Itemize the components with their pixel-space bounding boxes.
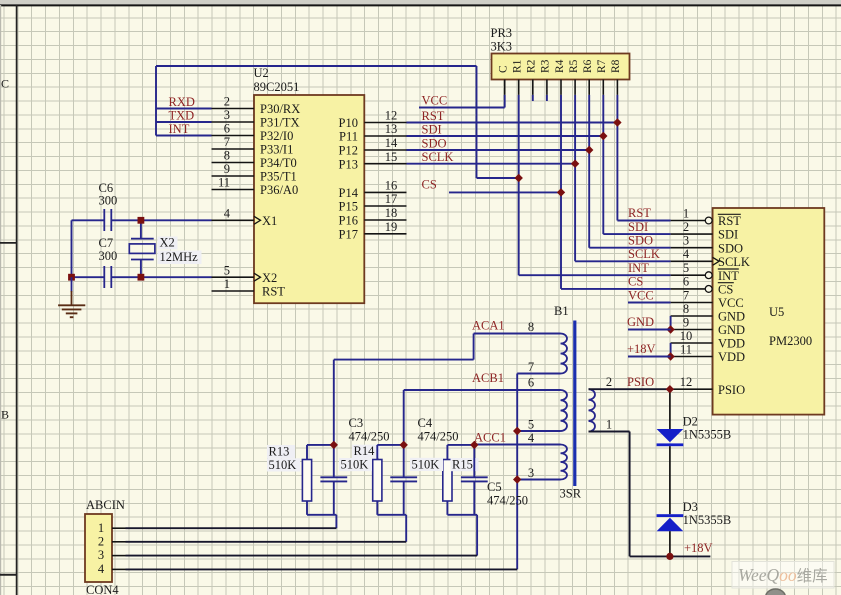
U2 pin 15 stub	[364, 163, 406, 165]
svg-text:RST: RST	[422, 109, 445, 123]
wire PR3 C to VCC row	[504, 95, 506, 108]
svg-text:3SR: 3SR	[560, 487, 582, 501]
svg-text:3: 3	[98, 548, 104, 562]
wire RST into U5	[617, 220, 670, 222]
wire INT loop top horizontal	[156, 65, 477, 67]
ground symbol bars	[58, 304, 85, 306]
U5 pin 10 stub	[671, 342, 713, 344]
svg-text:C7: C7	[99, 236, 114, 250]
svg-text:VCC: VCC	[628, 289, 654, 303]
resistor R15 body	[443, 460, 452, 502]
crystal X2 label	[158, 237, 178, 250]
svg-text:474/250: 474/250	[349, 430, 390, 444]
wire CS into U5	[561, 288, 671, 290]
zone divider tick lower	[0, 574, 17, 576]
wire C3 drop to bus	[335, 515, 337, 528]
svg-text:RXD: RXD	[169, 95, 195, 109]
svg-text:VCC: VCC	[422, 94, 448, 108]
svg-text:P35/T1: P35/T1	[260, 170, 297, 184]
PR3 pin C stub	[504, 80, 506, 95]
junction CS-R4	[557, 188, 565, 196]
wire ABCIN 3	[126, 555, 478, 557]
crystal X2 value 12MHz	[158, 251, 202, 265]
svg-text:SDO: SDO	[628, 233, 653, 247]
connector CON4 body	[85, 514, 112, 582]
U5 pin 11 stub	[671, 356, 713, 358]
svg-text:P30/RX: P30/RX	[260, 102, 300, 116]
top toolbar strip	[0, 0, 841, 4]
svg-text:C: C	[1, 77, 9, 91]
CON4 pin 1 stub	[112, 527, 126, 529]
wire INT row	[156, 135, 212, 137]
IC U5 PM2300 body	[713, 208, 825, 415]
svg-text:9: 9	[224, 162, 230, 176]
svg-text:510K: 510K	[269, 458, 297, 472]
svg-text:CON4: CON4	[86, 583, 119, 595]
wire CS row from U2	[449, 191, 561, 193]
svg-text:PSIO: PSIO	[718, 383, 745, 397]
wire U5 pin10 jog down	[670, 343, 672, 357]
svg-text:1: 1	[606, 418, 612, 432]
svg-text:R2: R2	[526, 59, 538, 73]
svg-text:P12: P12	[339, 144, 358, 158]
capacitor C7 plates	[103, 266, 105, 288]
wire INT loop right vertical	[476, 66, 478, 178]
svg-text:2: 2	[683, 220, 689, 234]
U5 pin label overline INT	[718, 268, 739, 270]
U5 SCLK clock chevron	[713, 257, 720, 265]
svg-text:300: 300	[99, 194, 118, 208]
svg-text:D3: D3	[683, 500, 698, 514]
svg-text:2: 2	[606, 375, 612, 389]
svg-text:8: 8	[528, 320, 534, 334]
U2 pin 19 stub	[364, 233, 406, 235]
wire R14-C4 bottom	[377, 514, 406, 516]
capacitor C4 top stem	[403, 445, 405, 477]
wire PR3 R6 vertical (SDO net)	[588, 95, 590, 248]
B1 pin 4 wire (ACC1)	[474, 444, 560, 446]
svg-text:P34/T0: P34/T0	[260, 156, 297, 170]
svg-text:INT: INT	[169, 122, 190, 136]
svg-text:SDI: SDI	[628, 220, 648, 234]
junction SDO-R6	[585, 146, 593, 154]
U5 pin 12 stub	[671, 388, 713, 390]
wire VCC row	[419, 107, 505, 109]
svg-text:INT: INT	[718, 269, 739, 283]
svg-text:PSIO: PSIO	[627, 375, 654, 389]
PR3 pin R7 stub	[602, 80, 604, 95]
svg-text:7: 7	[683, 288, 689, 302]
svg-text:R6: R6	[582, 59, 594, 73]
ground symbol stem	[71, 277, 73, 292]
svg-text:474/250: 474/250	[487, 494, 528, 508]
junction D3-+18V	[666, 553, 673, 560]
svg-text:+18V: +18V	[627, 342, 656, 356]
wire INT to R1 junction	[477, 177, 519, 179]
U5 pin 3 stub	[671, 247, 713, 249]
svg-text:PR3: PR3	[491, 26, 513, 40]
wire ABCIN 4	[126, 568, 518, 570]
svg-text:18: 18	[385, 206, 398, 220]
svg-text:10: 10	[680, 329, 693, 343]
svg-text:R7: R7	[596, 59, 608, 73]
svg-text:7: 7	[528, 360, 534, 374]
svg-text:C5: C5	[487, 480, 502, 494]
sheet inner border line	[16, 5, 18, 595]
svg-text:SCLK: SCLK	[422, 150, 454, 164]
svg-text:INT: INT	[628, 261, 649, 275]
U2 pin 17 stub	[364, 205, 406, 207]
watermark panel	[732, 562, 834, 589]
wire SDI row from U2	[407, 135, 604, 137]
svg-text:R8: R8	[610, 59, 622, 73]
svg-text:RST: RST	[262, 285, 285, 299]
PR3 pin R5 stub	[574, 80, 576, 95]
PR3 pin R6 stub	[588, 80, 590, 95]
svg-text:4: 4	[224, 207, 231, 221]
B1 pin 6 wire (ACB1)	[404, 389, 561, 391]
junction ground node	[68, 274, 75, 281]
wire R14-C4 top	[377, 444, 403, 446]
B1 pin 5 wire	[517, 430, 560, 432]
wire ABCIN 1	[126, 527, 337, 529]
U5 pin 6 stub	[671, 288, 706, 290]
wire PR3 R1 vertical (INT net)	[518, 95, 520, 275]
zone divider tick upper	[0, 242, 17, 244]
wire ACB1 down to C4	[403, 390, 405, 445]
svg-text:3: 3	[528, 466, 534, 480]
svg-text:P33/I1: P33/I1	[260, 143, 293, 157]
svg-text:3K3: 3K3	[491, 40, 513, 54]
svg-text:8: 8	[683, 302, 689, 316]
svg-text:U5: U5	[769, 305, 784, 319]
svg-text:P32/I0: P32/I0	[260, 129, 293, 143]
crystal X2 stem top	[140, 220, 142, 238]
svg-text:C4: C4	[418, 416, 433, 430]
svg-text:6: 6	[683, 275, 689, 289]
svg-text:GND: GND	[718, 310, 745, 324]
svg-text:X2: X2	[262, 271, 277, 285]
svg-text:R4: R4	[554, 59, 566, 73]
svg-text:14: 14	[385, 136, 398, 150]
svg-text:7: 7	[224, 135, 230, 149]
U2 pin 13 stub	[364, 135, 406, 137]
wire SDI into U5	[603, 233, 670, 235]
wire ACA1 corner vertical	[473, 334, 475, 360]
svg-text:R14: R14	[354, 444, 376, 458]
U2 X1 clock chevron	[254, 216, 261, 224]
wire GND stub	[628, 329, 671, 331]
junction RST-R8	[613, 118, 621, 126]
U2 pin 8 stub	[212, 162, 255, 164]
wire PR3 R4 vertical (CS net)	[560, 95, 562, 289]
svg-text:11: 11	[680, 342, 692, 356]
resistor R15 top stem	[446, 445, 448, 460]
PR3 pin R1 stub	[518, 80, 520, 95]
junction SCLK-R5	[571, 160, 579, 168]
wire SDO row from U2	[407, 149, 590, 151]
svg-text:2: 2	[224, 95, 230, 109]
wire R13-C3 top	[307, 444, 334, 446]
svg-text:GND: GND	[718, 323, 745, 337]
U2 pin 3 stub	[212, 121, 255, 123]
capacitor C4 bottom stem	[403, 481, 405, 514]
U2 X2 clock chevron	[254, 273, 261, 281]
crystal X2 body	[129, 244, 155, 254]
CON4 pin 2 stub	[112, 541, 126, 543]
svg-text:16: 16	[385, 179, 398, 193]
resistor R13 bottom stem	[306, 501, 308, 515]
svg-text:ACC1: ACC1	[474, 430, 506, 444]
svg-text:RST: RST	[718, 214, 741, 228]
U5 pin 7 stub	[671, 302, 713, 304]
IC U2 89C2051 body	[254, 95, 364, 303]
svg-text:P10: P10	[339, 116, 358, 130]
svg-text:R15: R15	[452, 458, 473, 472]
wire INT bus vertical left of U2	[155, 66, 157, 136]
svg-text:P17: P17	[339, 227, 358, 241]
capacitor C5 plates	[461, 476, 488, 478]
transformer winding B (pins 6-5)	[561, 390, 567, 431]
svg-text:15: 15	[385, 150, 398, 164]
resistor R13 top stem	[306, 445, 308, 460]
resistor R14 designator	[352, 445, 380, 458]
svg-text:6: 6	[528, 376, 534, 390]
junction PSIO-D2	[666, 385, 674, 393]
svg-text:P11: P11	[339, 130, 358, 144]
svg-text:C: C	[498, 65, 510, 73]
B1 pin 1 wire	[589, 431, 630, 433]
svg-text:SDO: SDO	[718, 241, 743, 255]
svg-text:P13: P13	[339, 157, 358, 171]
svg-text:R3: R3	[540, 59, 552, 73]
svg-text:5: 5	[224, 263, 230, 277]
B1 pin 7 wire	[517, 373, 560, 375]
wire ACA1 down to C3	[333, 360, 335, 445]
svg-text:P31/TX: P31/TX	[260, 116, 300, 130]
B1 pin 2 wire (PSIO)	[589, 388, 671, 390]
wire VCC stub at U5 pin7	[628, 302, 671, 304]
svg-text:12MHz: 12MHz	[160, 250, 199, 264]
PR3 pin R3 stub	[546, 80, 548, 95]
crystal X2 stem bottom	[140, 260, 142, 278]
svg-text:4: 4	[528, 431, 535, 445]
wire PR3 R5 vertical (SCLK net)	[574, 95, 576, 261]
wire C4 drop to bus	[405, 515, 407, 542]
svg-text:17: 17	[385, 192, 398, 206]
resistor R13 body	[302, 460, 311, 502]
capacitor C6 plates	[103, 209, 105, 231]
svg-text:89C2051: 89C2051	[254, 80, 300, 94]
svg-text:SDI: SDI	[718, 228, 738, 242]
U2 pin 18 stub	[364, 219, 406, 221]
capacitor C5 top stem	[473, 445, 475, 477]
U2 pin 4 stub	[212, 219, 255, 221]
PR3 pin R8 stub	[616, 80, 618, 95]
svg-text:CS: CS	[628, 275, 643, 289]
U2 pin 12 stub	[364, 122, 406, 124]
watermark logo blob	[766, 589, 786, 595]
junction X1-crystal	[138, 217, 145, 224]
capacitor C3 bottom stem	[333, 481, 335, 514]
wire C5 drop to bus	[476, 515, 478, 556]
svg-text:2: 2	[98, 534, 104, 548]
wire X1 vertical to ground	[71, 220, 73, 277]
U2 pin 9 stub	[212, 175, 255, 177]
wire +18V rail	[630, 555, 711, 557]
B1 pin 8 wire (ACA1)	[474, 333, 561, 335]
U5 pin 1 stub	[671, 220, 706, 222]
U2 pin 11 stub	[212, 189, 255, 191]
wire X1 net left segment	[72, 219, 105, 221]
capacitor C3 plates	[320, 476, 347, 478]
svg-text:CS: CS	[718, 283, 733, 297]
U5 pin 8 stub	[671, 315, 713, 317]
capacitor C4 plates	[390, 476, 417, 478]
svg-text:510K: 510K	[341, 458, 369, 472]
svg-text:3: 3	[683, 234, 689, 248]
wire RST row from U2	[407, 122, 618, 124]
svg-text:R5: R5	[568, 59, 580, 73]
CON4 pin 4 stub	[112, 568, 126, 570]
svg-text:3: 3	[224, 108, 230, 122]
svg-text:4: 4	[683, 247, 690, 261]
resistor R15 bottom stem	[446, 501, 448, 515]
svg-text:4: 4	[98, 562, 105, 576]
B1 pin 3 wire	[517, 479, 560, 481]
svg-text:GND: GND	[627, 315, 654, 329]
svg-text:1N5355B: 1N5355B	[683, 428, 732, 442]
junction common-pin3	[513, 475, 521, 483]
junction X2-crystal	[138, 274, 145, 281]
junction SDI-R7	[599, 132, 607, 140]
wire X2 net left segment	[72, 276, 105, 278]
svg-text:ABCIN: ABCIN	[86, 498, 125, 512]
wire SCLK row from U2	[407, 163, 576, 165]
transformer winding C (pins 4-3)	[561, 445, 567, 480]
svg-text:SDI: SDI	[422, 122, 442, 136]
svg-text:U2: U2	[254, 66, 269, 80]
svg-text:P36/A0: P36/A0	[260, 183, 298, 197]
svg-text:X1: X1	[262, 214, 277, 228]
wire X2 net mid segment	[111, 276, 211, 278]
wire PR3 R3 stub down	[546, 95, 548, 101]
svg-text:D2: D2	[683, 415, 698, 429]
junction INT-R1	[515, 174, 523, 182]
wire RXD row	[156, 108, 212, 110]
svg-text:19: 19	[385, 220, 398, 234]
svg-text:P16: P16	[339, 214, 358, 228]
svg-text:WeeQoo维库: WeeQoo维库	[738, 565, 828, 585]
wire PR3 R7 vertical (SDI net)	[602, 95, 604, 234]
svg-text:P14: P14	[339, 186, 359, 200]
svg-text:B1: B1	[554, 304, 569, 318]
wire D2 to D3	[669, 446, 671, 514]
svg-text:8: 8	[224, 149, 230, 163]
svg-text:P15: P15	[339, 200, 358, 214]
U5 pin 4 stub	[671, 260, 713, 262]
wire R15-C5 bottom	[447, 514, 477, 516]
U5 pin label overline RST	[718, 213, 741, 215]
svg-text:SCLK: SCLK	[718, 255, 750, 269]
wire ACA1 horizontal	[334, 359, 474, 361]
wire PSIO junction to D2	[669, 389, 671, 429]
resistor R14 value 510K	[339, 458, 372, 471]
wire INT into U5	[519, 274, 671, 276]
svg-text:474/250: 474/250	[418, 430, 459, 444]
wire R15-C5 top	[447, 444, 474, 446]
junction C4 top	[400, 441, 408, 449]
svg-text:ACB1: ACB1	[472, 371, 504, 385]
svg-text:5: 5	[683, 261, 689, 275]
crystal X2 bottom plate	[131, 259, 154, 261]
U5 pin label overline CS	[718, 282, 734, 284]
junction VDD pins 10-11	[666, 352, 674, 360]
wire SCLK into U5	[575, 260, 671, 262]
wire PR3 R8 vertical (RST net)	[616, 95, 618, 221]
svg-text:SDO: SDO	[422, 136, 447, 150]
svg-text:6: 6	[224, 122, 230, 136]
sheet left outer edge	[0, 5, 2, 595]
wire PR3 R2 stub down	[532, 95, 534, 101]
svg-text:C3: C3	[349, 416, 364, 430]
svg-text:1: 1	[98, 521, 104, 535]
resistor R15 value 510K	[410, 458, 443, 471]
svg-text:9: 9	[683, 315, 689, 329]
U2 pin 14 stub	[364, 149, 406, 151]
resistor R14 bottom stem	[376, 501, 378, 515]
U2 pin 6 stub	[212, 135, 255, 137]
junction GND pins 8-9	[666, 325, 674, 333]
wire X1 net mid segment	[111, 219, 211, 221]
wire B1 pin1 down	[629, 432, 631, 557]
resistor network PR3 body	[492, 54, 630, 80]
transformer secondary winding (pins 2-1)	[589, 389, 595, 431]
wire SDO into U5	[589, 247, 670, 249]
svg-text:ACA1: ACA1	[472, 319, 505, 333]
diode D2 triangle	[657, 429, 684, 442]
svg-text:12: 12	[385, 109, 398, 123]
resistor R13 value 510K	[267, 458, 300, 471]
svg-text:VDD: VDD	[718, 350, 745, 364]
svg-text:510K: 510K	[412, 457, 440, 471]
svg-text:SCLK: SCLK	[628, 247, 660, 261]
PR3 pin R2 stub	[532, 80, 534, 95]
svg-text:5: 5	[528, 418, 534, 432]
resistor R14 top stem	[376, 445, 378, 460]
svg-text:RST: RST	[628, 206, 651, 220]
svg-text:12: 12	[680, 375, 693, 389]
U5 pin 9 stub	[671, 329, 713, 331]
wire D3 to +18V rail	[669, 531, 671, 556]
wire ABCIN 2	[126, 541, 407, 543]
svg-text:1: 1	[224, 277, 230, 291]
wire U5 pin8 jog down	[670, 316, 672, 330]
svg-text:VDD: VDD	[718, 337, 745, 351]
svg-text:X2: X2	[160, 236, 175, 250]
svg-text:VCC: VCC	[718, 296, 744, 310]
PR3 pin R4 stub	[560, 80, 562, 95]
svg-text:B: B	[1, 408, 9, 422]
svg-text:R1: R1	[512, 59, 524, 73]
U2 pin 16 stub	[364, 191, 406, 193]
diode D3 cathode bar	[657, 514, 684, 517]
wire TXD row	[156, 121, 212, 123]
svg-text:13: 13	[385, 122, 398, 136]
transformer winding A (pins 8-7)	[561, 334, 567, 374]
svg-text:PM2300: PM2300	[769, 334, 812, 348]
wire +18V stub	[628, 356, 671, 358]
